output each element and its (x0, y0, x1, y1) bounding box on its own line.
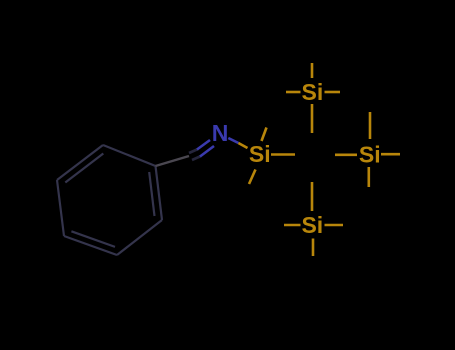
wire: ring edge E-F (bottom-right) (117, 220, 162, 255)
wire: ring inner double D-E (71, 231, 115, 247)
wire: ring edge F-A (right) (156, 166, 163, 220)
bond C2-Si(bottom) (311, 182, 314, 211)
bond Si(bottom)-CH3 down (312, 239, 315, 257)
bond Si(right)-CH3 up (369, 112, 372, 139)
bond Si(top)-CH3 left (286, 91, 301, 94)
bond Si(mid)-CH3 down-left (249, 170, 256, 185)
svg-text:Si: Si (302, 79, 324, 105)
bond C2-Si(top) (311, 104, 314, 133)
wire: bond ring A to C of C=N (156, 156, 190, 166)
wire: ring edge D-E (bottom) (64, 236, 117, 255)
bond Si(mid)-C2 (271, 153, 295, 156)
central carbon C2 bonds (orange stubs with label gap) (312, 104, 357, 211)
bond Si(bottom)-CH3 right (325, 224, 344, 227)
bond N-Si: orange half (238, 143, 247, 148)
svg-text:Si: Si (249, 141, 271, 167)
wire: ring edge C-D (left) (57, 180, 64, 236)
bond Si(right)-CH3 right (381, 153, 400, 156)
wire: ring inner double B-C (65, 154, 103, 183)
svg-text:N: N (212, 120, 229, 146)
wire: C=N double bond main line, nitrogen-side blue half (200, 146, 214, 157)
svg-text:Si: Si (301, 212, 323, 238)
wire: C=N double bond inner line, nitrogen-side blue half (197, 140, 210, 150)
benzene ring (phenyl), dark carbon color (57, 145, 162, 255)
wire: ring edge B-C (top-left) (57, 145, 103, 180)
wire: ring inner double F-A (149, 172, 154, 216)
bond Si(top)-CH3 up (311, 63, 314, 78)
bond Si(top)-CH3 right (325, 91, 341, 94)
svg-text:Si: Si (359, 142, 381, 168)
wire: C=N double bond inner line, carbon-side dark half (189, 149, 198, 153)
bond C2-Si(right) (335, 154, 357, 157)
wire: ring edge A-B (top-right) (103, 145, 156, 166)
bond Si(bottom)-CH3 left (284, 224, 301, 227)
bond Si(right)-CH3 down (367, 167, 370, 187)
bond Si(mid)-CH3 up (262, 128, 267, 142)
bond N-Si: blue half (228, 138, 238, 143)
wire: C=N double bond main line, carbon-side dark half (192, 156, 201, 160)
